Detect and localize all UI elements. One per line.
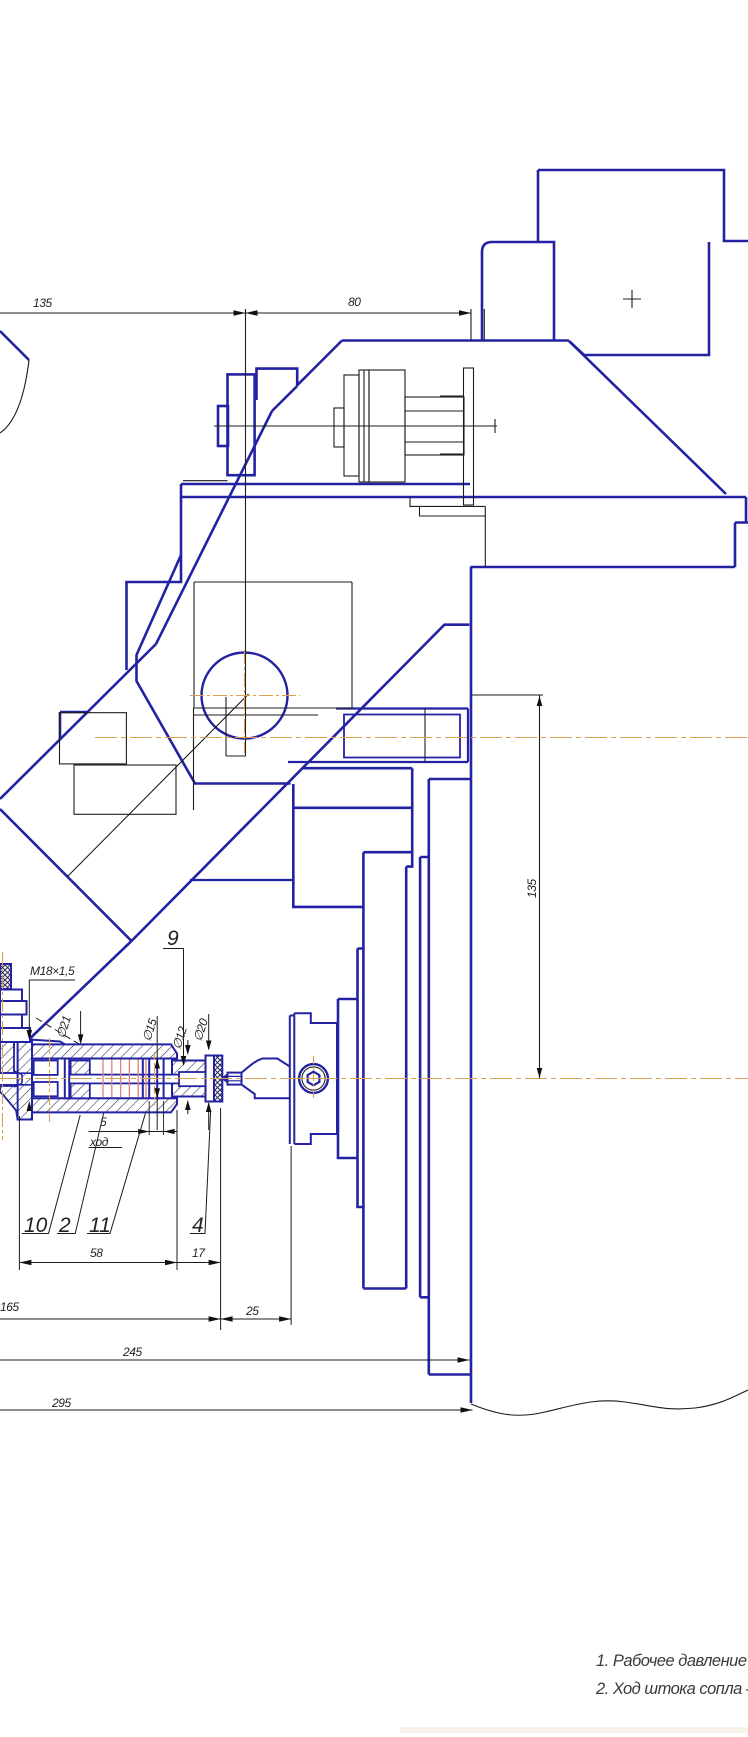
hatched left fitting top block [0,1042,14,1073]
svg-text:11: 11 [89,1214,111,1237]
bearing inner edge [424,709,426,763]
svg-text:4: 4 [192,1214,204,1237]
svg-text:135: 135 [33,296,53,310]
pulley hub lower line [190,879,293,881]
svg-text:58: 58 [90,1246,103,1260]
piston disc [65,1059,70,1099]
recess step y=779 [429,778,471,781]
union nut recess bottom [34,1082,58,1096]
disc band right edge x=412.2 [406,768,412,866]
gusset chamfer on block corner [272,386,297,411]
nozzle axis [0,1078,748,1080]
svg-text:165: 165 [0,1300,20,1314]
lower plate thin rect [74,765,176,814]
body recess face x=428.8 [427,779,430,1375]
drive shaft sleeve inner [344,715,460,758]
svg-text:2. Ход штока сопла –: 2. Ход штока сопла – [595,1680,748,1698]
knurled knob [214,1056,222,1102]
body top face y=567 [470,566,735,569]
dim 245 [0,1359,470,1361]
hatched tube bottom band [32,1098,177,1112]
top table face y=497 long [181,496,746,499]
disc top y=852 [363,851,412,854]
dia12 arrows [187,1040,189,1114]
nut counterbore [179,1072,206,1086]
hub x=338 [338,999,358,1158]
main horizontal face y=340 [342,339,569,342]
deflector horn top [242,1059,290,1073]
upper-left cylinder clevis corner [0,331,29,360]
union nut recess top [34,1061,58,1075]
long thin vertical x=193.5 lower part [193,708,195,810]
center cross top-right block [623,290,641,308]
arrows of 135/80 at shared extension [234,310,472,316]
body bottom step [429,1373,471,1376]
M18x1,5 label [29,980,75,1037]
wavy break line [471,1390,748,1415]
cylinder thin parts [334,408,344,447]
big gusset diagonal upper 45deg [297,341,342,386]
svg-text:25: 25 [245,1304,259,1318]
adjusting knob [206,1056,215,1102]
deflector horn bottom [242,1085,290,1099]
top-right block: inner step [584,242,709,355]
extension x=484.3 [483,309,485,341]
chamfer to y=355 shelf [569,341,584,355]
svg-text:∅20: ∅20 [191,1016,212,1043]
union nut bolt axis [49,1038,51,1122]
hatched tube top band [32,1044,177,1058]
position leaders 10 2 11 4 [22,1115,80,1234]
svg-text:245: 245 [122,1345,143,1359]
svg-text:10: 10 [24,1214,48,1237]
second gusset diagonal D2 [132,625,470,941]
cylinder mount block [257,369,298,400]
hatched flange plate [18,1040,32,1120]
hatched spray nut [172,1061,206,1097]
svg-text:9: 9 [167,927,179,950]
seat taper [14,1071,22,1087]
dim 58 / 17 [19,1262,220,1264]
leader diagonal to circle center [67,694,249,877]
right end step of table [735,497,748,567]
socket bolt [299,1064,328,1093]
135 vertical dimension [472,695,543,1079]
right disc [143,1059,149,1099]
flange left wall [290,1016,295,1145]
cylinder left tab [218,406,228,446]
svg-text:2: 2 [58,1214,71,1237]
135 vertical arrows [537,696,543,1078]
faint bottom watermark strip [400,1727,748,1733]
needle cylinder [228,1073,242,1085]
box under circle [194,582,352,708]
gusset diagonal steep segment [156,411,272,644]
thin line above bracket [183,480,228,482]
cylinder axis [214,419,497,433]
blue step at left plate [60,712,88,740]
top-right block: upper rectangle [538,170,748,241]
drive shaft sleeve outer [288,709,468,763]
small vertical under gusset [137,555,291,784]
extension x=245.5 [245,309,247,756]
svg-text:80: 80 [348,295,361,309]
vertical fitting hex stack [0,964,30,1048]
svg-text:ход: ход [89,1135,109,1149]
disc face x=363.5 [362,852,365,1288]
stroke dim 5 [89,1131,177,1133]
lower-left diagonal D3a [0,809,132,941]
extension x=471 [470,309,472,341]
svg-text:17: 17 [192,1246,206,1260]
flange outline [290,1013,337,1144]
svg-text:1. Рабочее давление в: 1. Рабочее давление в [596,1652,748,1670]
tube top edge slope [14,1039,65,1045]
upper shaft axis [95,737,748,739]
lower-left diagonal D3b to nozzle [20,941,132,1048]
spring coils [103,1060,146,1098]
bottom steps of disc stack [363,1289,428,1298]
needle tip [222,1075,227,1082]
pos 9 leader [163,949,184,1065]
dia21 dashed leader [36,1018,79,1044]
bolt cross [313,1056,315,1101]
plate x=357.5 [358,949,364,1208]
svg-text:295: 295 [51,1396,72,1410]
body main face x=471 [470,567,473,1403]
fitting vertical axis [2,952,4,1140]
disc face x=406.2 [405,867,408,1289]
step x=420 [420,857,429,1297]
housing top-left step [293,784,363,907]
disc band top edges [293,768,412,808]
svg-text:M18×1,5: M18×1,5 [30,964,75,978]
valve stem [69,1075,205,1084]
left plate thin rect [60,713,127,764]
dimension 135/80 line [0,312,471,314]
svg-text:135: 135 [525,878,539,898]
svg-text:5: 5 [100,1115,107,1129]
top-right block: left column with rounded corner [482,242,554,340]
bore lines [34,1059,177,1099]
stroke gap centerline [154,1052,156,1105]
svg-text:∅21: ∅21 [54,1014,74,1040]
thin step under table [410,497,485,567]
left corner arc [0,360,29,433]
circle vertical centerline [244,650,246,753]
gusset diagonal lower 45deg to left edge [0,644,156,799]
dia20 extension [208,1014,210,1130]
hatched left fitting bottom block [0,1086,18,1120]
cylinder tall rect [228,374,255,475]
left bracket polyline P2 [127,484,182,670]
spring coils placeholder [0,1013,337,1144]
hatched sleeve top [71,1061,90,1075]
tube bottom edge [18,1119,32,1121]
dia15 extension [156,1016,158,1130]
dim 165 / 25 [0,1318,291,1320]
dim 295 [0,1409,473,1411]
top table face y=484 [181,483,470,486]
circle horizontal centerline [190,695,300,697]
top-right block: left edge of upper rectangle [537,170,540,242]
small notch under circle [226,697,246,756]
right gusset 45deg diagonal [570,342,726,494]
hatched sleeve bottom [71,1082,90,1098]
bore circle [202,653,288,739]
bore shoulder [157,1059,163,1099]
inlet channel [0,1073,34,1085]
khod underline [89,1147,122,1149]
